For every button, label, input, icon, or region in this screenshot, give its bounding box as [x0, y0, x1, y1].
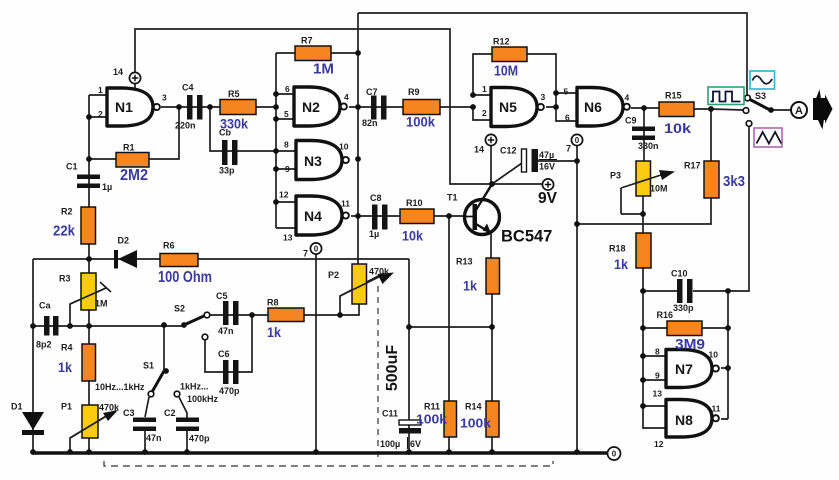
- svg-text:8: 8: [284, 140, 289, 150]
- svg-text:N5: N5: [499, 99, 517, 115]
- svg-text:13: 13: [653, 389, 663, 399]
- svg-text:330p: 330p: [673, 303, 694, 313]
- svg-text:P3: P3: [610, 171, 621, 181]
- svg-text:C4: C4: [182, 83, 194, 93]
- svg-text:C11: C11: [382, 409, 398, 419]
- svg-text:100k: 100k: [416, 412, 448, 427]
- svg-text:100kHz: 100kHz: [187, 394, 219, 404]
- svg-text:10k: 10k: [664, 120, 691, 136]
- svg-text:1kHz...: 1kHz...: [180, 382, 209, 392]
- svg-text:9V: 9V: [538, 190, 558, 207]
- svg-text:0: 0: [612, 449, 617, 458]
- svg-text:4: 4: [625, 93, 630, 103]
- svg-text:10: 10: [709, 350, 719, 360]
- svg-text:R17: R17: [684, 161, 701, 171]
- svg-text:R12: R12: [493, 37, 510, 47]
- svg-text:D1: D1: [11, 402, 23, 412]
- svg-text:R5: R5: [228, 89, 240, 99]
- svg-text:R15: R15: [665, 91, 682, 101]
- svg-text:11: 11: [712, 404, 721, 414]
- svg-text:1M: 1M: [313, 61, 334, 78]
- svg-text:C2: C2: [164, 408, 176, 418]
- svg-text:10k: 10k: [402, 228, 423, 244]
- svg-text:3k3: 3k3: [723, 174, 745, 190]
- svg-text:13: 13: [283, 233, 293, 243]
- svg-text:1k: 1k: [267, 325, 281, 340]
- svg-text:10Hz...1kHz: 10Hz...1kHz: [95, 382, 145, 392]
- svg-text:33p: 33p: [219, 166, 235, 176]
- svg-text:1: 1: [482, 84, 487, 94]
- svg-text:6: 6: [285, 84, 290, 94]
- svg-text:82n: 82n: [362, 118, 378, 128]
- svg-text:9: 9: [655, 371, 660, 381]
- svg-text:330n: 330n: [638, 141, 659, 151]
- svg-text:5: 5: [564, 87, 569, 97]
- svg-text:14: 14: [113, 67, 123, 77]
- svg-text:220n: 220n: [175, 121, 196, 131]
- svg-text:C3: C3: [123, 408, 135, 418]
- svg-text:R6: R6: [163, 241, 175, 251]
- svg-text:1µ: 1µ: [369, 229, 379, 239]
- svg-text:470p: 470p: [189, 434, 210, 444]
- svg-text:R10: R10: [406, 198, 423, 208]
- svg-text:3: 3: [541, 92, 546, 102]
- svg-text:0: 0: [314, 244, 319, 253]
- svg-text:Ca: Ca: [39, 301, 51, 311]
- svg-text:10M: 10M: [494, 64, 518, 80]
- svg-text:8p2: 8p2: [36, 340, 52, 350]
- svg-text:2M2: 2M2: [120, 167, 148, 184]
- svg-text:47n: 47n: [146, 433, 162, 443]
- svg-text:C1: C1: [66, 162, 78, 172]
- svg-text:R1: R1: [123, 143, 135, 153]
- svg-text:1k: 1k: [463, 279, 477, 294]
- svg-text:BC547: BC547: [501, 228, 552, 246]
- svg-text:S1: S1: [143, 361, 154, 371]
- svg-text:14: 14: [474, 145, 484, 155]
- svg-text:R3: R3: [59, 274, 71, 284]
- svg-text:C7: C7: [366, 87, 378, 97]
- svg-text:47µ: 47µ: [539, 150, 554, 160]
- svg-text:R7: R7: [301, 36, 313, 46]
- svg-text:9: 9: [285, 164, 290, 174]
- svg-text:N8: N8: [675, 412, 693, 428]
- svg-text:0: 0: [575, 136, 580, 145]
- svg-text:S3: S3: [755, 91, 766, 101]
- svg-text:10: 10: [339, 142, 349, 152]
- svg-text:R4: R4: [61, 343, 73, 353]
- svg-text:N3: N3: [304, 153, 322, 169]
- svg-text:C5: C5: [216, 291, 228, 301]
- svg-text:N2: N2: [302, 99, 320, 115]
- svg-text:N6: N6: [584, 99, 602, 115]
- svg-text:330k: 330k: [220, 116, 248, 132]
- svg-text:100k: 100k: [460, 416, 492, 431]
- svg-text:12: 12: [654, 439, 664, 449]
- svg-text:N4: N4: [304, 208, 322, 224]
- svg-text:8: 8: [655, 347, 660, 357]
- svg-text:5: 5: [284, 109, 289, 119]
- svg-text:A: A: [795, 105, 803, 117]
- svg-text:R14: R14: [465, 402, 482, 412]
- svg-text:100k: 100k: [406, 115, 435, 130]
- svg-text:R13: R13: [456, 257, 473, 267]
- svg-text:100µ: 100µ: [380, 439, 400, 449]
- svg-text:P2: P2: [328, 270, 339, 280]
- svg-text:1: 1: [98, 85, 103, 95]
- svg-text:C8: C8: [370, 193, 382, 203]
- svg-text:10M: 10M: [650, 184, 668, 194]
- svg-text:500uF: 500uF: [384, 345, 401, 391]
- svg-text:2: 2: [482, 108, 487, 118]
- svg-text:R16: R16: [657, 310, 674, 320]
- svg-text:2: 2: [98, 109, 103, 119]
- svg-text:6V: 6V: [410, 439, 421, 449]
- svg-text:12: 12: [279, 190, 289, 200]
- svg-text:470p: 470p: [219, 386, 240, 396]
- svg-text:11: 11: [341, 199, 350, 209]
- svg-text:47n: 47n: [218, 326, 234, 336]
- svg-text:7: 7: [566, 144, 571, 154]
- svg-text:C9: C9: [625, 116, 637, 126]
- svg-text:22k: 22k: [53, 223, 76, 240]
- svg-text:R8: R8: [267, 298, 279, 308]
- svg-text:S2: S2: [174, 304, 185, 314]
- svg-text:R2: R2: [61, 207, 73, 217]
- svg-text:1k: 1k: [614, 257, 628, 272]
- svg-text:16V: 16V: [539, 162, 555, 172]
- svg-text:C10: C10: [671, 269, 688, 279]
- svg-text:N7: N7: [675, 361, 693, 377]
- svg-text:6: 6: [565, 113, 570, 123]
- svg-text:D2: D2: [118, 236, 130, 246]
- svg-text:R9: R9: [408, 87, 420, 97]
- svg-text:1M: 1M: [95, 299, 108, 309]
- svg-text:N1: N1: [115, 99, 133, 115]
- svg-text:470k: 470k: [99, 403, 120, 413]
- svg-text:100 Ohm: 100 Ohm: [158, 269, 212, 286]
- svg-text:C6: C6: [218, 349, 230, 359]
- svg-text:T1: T1: [447, 193, 458, 203]
- svg-text:3M9: 3M9: [675, 337, 705, 353]
- svg-text:7: 7: [303, 249, 308, 259]
- svg-text:470k: 470k: [369, 267, 390, 277]
- svg-text:C12: C12: [500, 146, 517, 156]
- svg-text:4: 4: [344, 92, 349, 102]
- svg-text:1µ: 1µ: [102, 182, 112, 192]
- svg-text:1k: 1k: [58, 360, 72, 375]
- svg-text:3: 3: [162, 93, 167, 103]
- svg-text:R18: R18: [609, 244, 626, 254]
- svg-text:R11: R11: [424, 402, 440, 412]
- svg-text:P1: P1: [61, 402, 72, 412]
